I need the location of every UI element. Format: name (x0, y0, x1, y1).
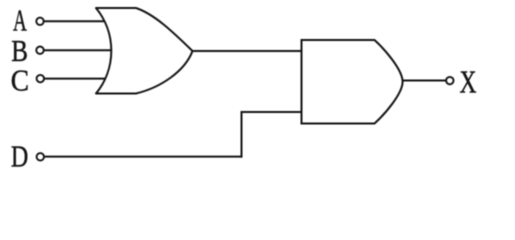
AND gate U2 (302, 40, 403, 124)
wire C (44, 78, 106, 80)
wire OR output to AND input (191, 50, 302, 52)
terminal D (37, 153, 44, 160)
wire D horizontal (44, 156, 243, 158)
terminal A (36, 18, 43, 25)
wire riser to AND input (241, 111, 302, 113)
wire B (44, 49, 113, 51)
svg-text:X: X (460, 64, 477, 99)
svg-text:D: D (11, 138, 28, 167)
wire D vertical riser (241, 111, 243, 158)
wire A (44, 20, 106, 22)
OR gate U1 (96, 8, 193, 94)
terminal B (36, 47, 43, 54)
terminal C (37, 75, 44, 82)
wire AND output (401, 80, 447, 82)
svg-text:C: C (11, 62, 29, 97)
terminal X (446, 77, 453, 84)
